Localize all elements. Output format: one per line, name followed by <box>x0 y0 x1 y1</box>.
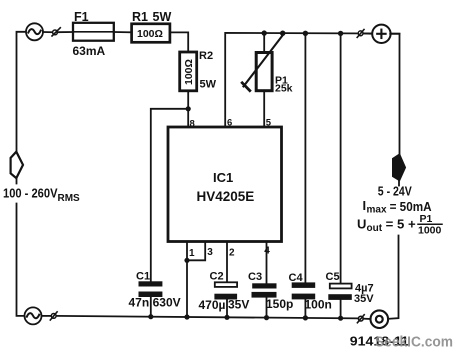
svg-text:C4: C4 <box>289 272 304 284</box>
svg-text:out: out <box>367 223 383 234</box>
junction node C4 bottom rail <box>303 315 308 320</box>
svg-text:4: 4 <box>264 245 270 256</box>
wire right vertical lower segment to O terminal <box>388 236 398 319</box>
wire O terminal to plug <box>363 318 370 320</box>
wire C5 from top rail down <box>340 33 342 283</box>
label F1 <box>74 10 89 24</box>
AC source B1 top left <box>26 23 43 40</box>
junction node C5 bottom rail <box>338 316 343 321</box>
label 35V of C2 <box>228 298 249 312</box>
junction node pin1/pin3 <box>184 258 189 263</box>
wire rail to P1 top <box>263 33 265 52</box>
wire pin 6 up to top rail <box>225 33 399 127</box>
svg-text:HV4205E: HV4205E <box>197 189 255 204</box>
svg-text:1000: 1000 <box>418 225 442 237</box>
svg-text:63mA: 63mA <box>73 44 106 58</box>
svg-text:F1: F1 <box>74 10 89 24</box>
wire terminal to fuse F1 <box>58 31 74 33</box>
svg-text:IC1: IC1 <box>213 170 233 185</box>
wire junction to C1 top <box>151 109 188 281</box>
label C3 <box>248 271 262 283</box>
watermark SeekIC.com <box>375 335 453 351</box>
wire plus terminal to right vertical rail <box>390 34 399 158</box>
wire from AC source to terminal <box>43 31 53 33</box>
svg-text:5 - 24V: 5 - 24V <box>378 184 412 199</box>
junction node P1 top on rail <box>262 30 267 35</box>
svg-text:R1: R1 <box>132 10 148 24</box>
svg-text:100Ω: 100Ω <box>183 59 195 85</box>
label 25k <box>275 83 293 95</box>
wire R2 bottom to pin 8 of IC1 <box>187 91 189 127</box>
label 35V of C5 <box>354 293 374 305</box>
label C4 <box>289 272 304 284</box>
svg-text:35V: 35V <box>354 293 374 305</box>
label P1 <box>275 74 288 86</box>
AC source bottom left <box>25 307 42 324</box>
wire P1 bottom to pin 5 <box>263 91 265 127</box>
label R2 <box>199 50 213 62</box>
svg-text:C3: C3 <box>248 271 262 283</box>
pin 3 label <box>207 247 213 258</box>
label C1 <box>136 271 150 283</box>
label C5 <box>326 271 340 283</box>
svg-text:P1: P1 <box>420 213 433 225</box>
svg-text:150p: 150p <box>266 297 293 311</box>
label 5W of R1 <box>153 10 172 24</box>
label 100-260V RMS <box>3 186 80 204</box>
label Imax = 50mA <box>363 198 433 216</box>
label 4u7 <box>355 283 374 295</box>
input arrow hollow (100-260V direction) <box>11 152 23 178</box>
svg-text:SeekIC.com: SeekIC.com <box>375 335 453 351</box>
wire left vertical from top AC source down to bottom AC source <box>17 32 27 316</box>
svg-text:C2: C2 <box>210 270 224 282</box>
pin 2 label <box>229 247 235 258</box>
svg-text:C1: C1 <box>136 271 150 283</box>
label 5-24V output voltage <box>378 184 412 199</box>
junction node pin1 bottom rail <box>184 314 189 319</box>
label 630V <box>153 296 181 310</box>
junction node C1 bottom rail <box>148 314 153 319</box>
svg-text:100 - 260V: 100 - 260V <box>3 186 58 201</box>
svg-text:470µ: 470µ <box>199 298 226 312</box>
svg-text:2: 2 <box>229 247 235 258</box>
wire pin 4 to C3 <box>266 242 268 284</box>
svg-text:= 50mA: = 50mA <box>390 199 433 214</box>
svg-text:6: 6 <box>227 118 232 129</box>
svg-text:100n: 100n <box>305 298 332 312</box>
junction node C3 bottom rail <box>264 315 269 320</box>
junction node P1 wiper on rail <box>280 31 285 36</box>
wire C4 from top rail down <box>304 33 306 282</box>
label R1 <box>132 10 148 24</box>
pin 4 label <box>264 245 270 256</box>
output terminal O (minus) <box>371 310 389 328</box>
svg-text:5W: 5W <box>200 79 217 91</box>
label 5W of R2 <box>200 79 217 91</box>
fuse F1 63mA <box>73 23 114 41</box>
label circuit number 914188-11 <box>350 334 409 349</box>
svg-text:630V: 630V <box>153 296 181 310</box>
svg-text:3: 3 <box>207 247 213 258</box>
resistor R2 100ohm 5W vertical <box>180 52 197 91</box>
label 63mA <box>73 44 106 58</box>
junction node C2 bottom rail <box>224 315 229 320</box>
svg-text:C5: C5 <box>326 271 340 283</box>
pins 1 and 3 jumper below IC <box>187 242 205 317</box>
pin 6 label <box>227 118 232 129</box>
svg-text:47n: 47n <box>129 296 150 310</box>
label 150p <box>266 297 293 311</box>
svg-text:RMS: RMS <box>58 193 81 204</box>
potentiometer P1 25k <box>242 35 283 91</box>
junction node C4 on top rail <box>303 31 308 36</box>
label Uout = 5 + P1/1000 <box>357 213 442 237</box>
capacitor C4 100n <box>292 282 316 318</box>
terminal plug top-right <box>357 30 364 38</box>
wire R1 to R2 <box>170 32 188 52</box>
wire stub below output arrow <box>398 177 400 186</box>
svg-text:35V: 35V <box>228 298 249 312</box>
label 100n <box>305 298 332 312</box>
svg-text:25k: 25k <box>275 83 293 95</box>
svg-text:max: max <box>367 205 387 216</box>
pin 8 label <box>190 118 195 129</box>
pin 5 label <box>266 118 272 129</box>
wire AC source to plug bottom-left <box>42 315 52 317</box>
wire top rail to terminal plus <box>363 32 373 34</box>
svg-text:U: U <box>357 216 366 231</box>
capacitor C1 47n 630V <box>139 281 163 316</box>
junction node at R2 bottom / C1 branch <box>186 106 191 111</box>
junction node C5 on top rail <box>338 31 343 36</box>
output arrow solid (5-24V direction) <box>392 153 406 181</box>
label C2 <box>210 270 224 282</box>
wire fuse to R1 <box>114 31 132 33</box>
capacitor C5 4u7 35V electrolytic <box>328 284 352 319</box>
capacitor C3 150p <box>252 283 277 317</box>
svg-text:5W: 5W <box>153 10 172 24</box>
capacitor C2 470u 35V electrolytic <box>214 282 237 317</box>
pin 1 label <box>189 248 195 259</box>
terminal plug bottom-left <box>50 312 57 320</box>
output terminal plus <box>372 25 390 43</box>
IC1 HV4205E box <box>168 127 282 242</box>
svg-text:= 5 +: = 5 + <box>386 216 416 231</box>
resistor R1 100ohm 5W <box>132 24 170 43</box>
svg-text:5: 5 <box>266 118 272 129</box>
svg-text:R2: R2 <box>199 50 213 62</box>
terminal plug top-left <box>52 28 60 36</box>
label 47n <box>129 296 150 310</box>
wire pin 2 to C2 <box>226 242 228 283</box>
terminal plug bottom-right <box>357 315 364 323</box>
bottom rail wire <box>56 316 358 319</box>
label 470u <box>199 298 226 312</box>
svg-text:1: 1 <box>189 248 195 259</box>
svg-text:100Ω: 100Ω <box>137 28 163 40</box>
